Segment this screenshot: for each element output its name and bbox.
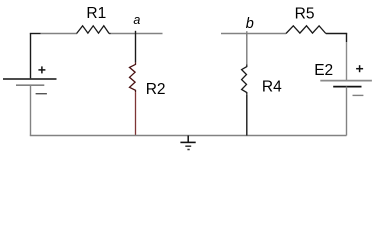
node a (junction tick and label) [135,31,137,34]
svg-text:E2: E2 [314,62,333,79]
resistor R1 (zigzag, 76.6-109.1, peaks up) [77,26,110,34]
battery (left) minus polarity sign [36,93,47,95]
battery (left) plus polarity sign [38,66,45,73]
resistor R5 (zigzag, 286-325.8, peaks up) [286,26,326,34]
svg-text:b: b [246,16,254,32]
svg-text:R2: R2 [146,81,166,98]
battery (left) long positive plate [3,78,57,80]
battery (left) short negative plate [16,84,44,86]
wire: R4 bottom lead (black, y 94.3-135) [246,94,248,135]
wire: right loop top stub (gray, 221-286) [221,33,286,35]
wire: E2 bottom lead (gray, x=346.5, y 86.5-135.5) [346,87,348,136]
wire: R5 right lead to corner (black, 325.8-347) [326,33,347,35]
svg-text:a: a [133,13,140,27]
wire: left battery bottom lead (gray, x=30, y 85-135) [30,85,32,136]
wire: R1 right lead (black, 109.1-110.8) [109,33,111,35]
battery E2 short negative plate [333,86,361,88]
wire: bottom rail (gray, y=135) [30,135,347,137]
wire: left battery positive lead (vertical) [30,34,32,79]
node b (junction tick and label) [246,31,248,36]
resistor R2 (zigzag, dark red, y 62.3-92.1, peaks left) [130,62,136,92]
svg-text:R1: R1 [86,5,106,22]
resistor R4 top lead (gray, x=246.8, y 33-64.5) [246,34,248,65]
wire: E2 top lead (vertical x=346.5, black then gray) [346,34,348,43]
ground (stub + 3 bars at x=188) [180,136,195,150]
resistor R4 (zigzag, black, y 64.5-94.3, peaks left) [242,65,247,95]
battery E2 plus sign [356,65,363,72]
resistor R2 top lead (black, x=135.5, y 33-62.3) [135,34,137,63]
battery E2 long positive plate [320,80,372,82]
svg-text:R5: R5 [295,5,315,22]
svg-text:R4: R4 [262,79,282,96]
wire: gray segment from R1 through node a to open stub end at 162.5 [111,33,163,35]
wire: top-left corner segment (black, 30-40.5) [30,33,41,35]
wire: R2 bottom lead (dark red, y 92.1-135) [135,92,137,135]
battery E2 minus sign [353,94,364,96]
wire: top left gray segment (40.5-77) [41,33,78,35]
